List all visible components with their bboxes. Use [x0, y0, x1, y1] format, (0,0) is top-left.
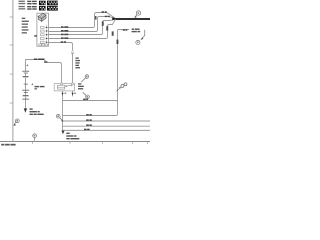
plus top [26, 64, 28, 66]
wiper motor ground arrow [61, 131, 64, 135]
left stub of switch [34, 35, 37, 36]
battery stack vertical [25, 60, 27, 109]
switch pins [39, 26, 48, 45]
ruler tick x132.5 [132, 142, 134, 145]
small label under wire [44, 61, 48, 62]
relay pin stub left [62, 91, 64, 97]
L/F BLOWER MOTOR SPEED SWITCH label [22, 18, 26, 19]
W/S CABLE label [34, 59, 37, 61]
branch label [123, 29, 126, 31]
gauge tick on long vertical [117, 40, 119, 44]
connector block A2 [39, 6, 46, 11]
circle ref bottom-mid [33, 134, 37, 138]
border zone tick y103 [10, 102, 14, 104]
relay entry pins [60, 83, 62, 85]
battery feed wire [26, 60, 62, 84]
battery plates [22, 71, 29, 99]
relay pin number specks [65, 93, 67, 94]
ruler tick x70 [69, 142, 71, 145]
TO A/C COMP text [132, 29, 135, 30]
battery ground arrow [24, 108, 27, 112]
fan-out labels [86, 114, 89, 116]
ruler tick x102.5 [102, 142, 104, 145]
TP 0N7290 text [1, 144, 4, 146]
plus mid [31, 83, 33, 85]
ruler tick x32.5 [32, 142, 34, 145]
NO GROUND AT text [30, 108, 33, 109]
BLWR PWR SS text [35, 86, 40, 87]
fan-out wire d [63, 129, 151, 131]
circle lower at relay [86, 95, 90, 99]
relay pin stub right [72, 91, 74, 97]
motor icon 3D [38, 13, 46, 21]
left page border [12, 0, 14, 142]
wires from switch [48, 13, 115, 84]
wire gauge labels [61, 26, 64, 28]
relay coil [57, 85, 72, 89]
A/C HEATER RELAY text [78, 83, 81, 84]
harness bus taper [112, 17, 116, 20]
junction circle ref [56, 114, 60, 118]
label w1 top [102, 11, 105, 13]
w5 inline connector [71, 52, 74, 54]
riser labels [105, 16, 107, 17]
ruler tick x147.5 [147, 142, 149, 145]
wiper switch row1 code [27, 1, 31, 2]
switch inner column [46, 25, 48, 44]
bottom page border [0, 141, 150, 143]
connector block B1 [47, 1, 58, 6]
fan-out wire a [63, 114, 118, 116]
wiper switch row2 label [19, 6, 25, 7]
inline connector marks on long vertical [117, 83, 128, 91]
battery tiny texts [23, 76, 29, 77]
relay output wire down [62, 96, 64, 131]
hook arrow to circle [141, 30, 145, 39]
border zone tick y45 [10, 44, 14, 46]
connector circle at bus [136, 11, 140, 15]
relay box [54, 84, 74, 91]
fan-out wire b [63, 120, 151, 122]
harness bus [116, 18, 150, 20]
W6 GROUND AT text [66, 133, 69, 134]
border zone tick y17 [10, 16, 14, 18]
wiper switch row2 code [27, 6, 31, 7]
circle ref bottom-left [15, 119, 19, 123]
F/W BLOWER MOTOR RLY FUSE text [75, 58, 78, 59]
blower speed switch box U1 [37, 13, 49, 46]
fan-out wire c [63, 125, 151, 127]
branch top horizontal [118, 30, 130, 31]
connector block B2 [47, 6, 58, 11]
circle upper at relay [85, 75, 89, 79]
connector block A1 [39, 1, 46, 6]
long vertical wire + bottom horizontal [117, 31, 119, 114]
wiper switch row1 label [19, 1, 25, 2]
junction horizontal to long vertical [63, 101, 118, 103]
border zone tick y74 [10, 73, 14, 75]
pin arrowheads [46, 27, 48, 43]
